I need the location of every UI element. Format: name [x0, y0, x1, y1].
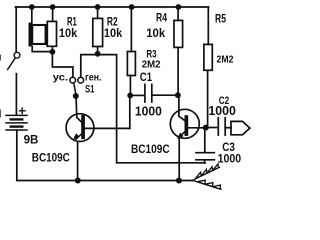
wire Q2 base lead	[188, 127, 206, 129]
wire battery to bottom rail	[16, 130, 18, 181]
wire node to Q2 collector	[178, 95, 180, 112]
wire rail to microphone	[31, 7, 33, 24]
svg-text:ус.: ус.	[53, 72, 68, 84]
svg-text:BC109C: BC109C	[131, 142, 170, 156]
svg-text:1000: 1000	[208, 104, 236, 118]
node R2 top on rail	[95, 4, 101, 10]
wire C2 to probe tip	[225, 127, 231, 129]
node R4/C1/Q2 collector junction	[175, 92, 181, 98]
wire Q2 emitter to rail	[178, 138, 180, 181]
switch SA1 arm	[8, 58, 16, 70]
svg-text:10k: 10k	[146, 26, 165, 40]
wire C3 bottom to crossing wire	[204, 160, 206, 163]
svg-text:C1: C1	[140, 70, 153, 84]
node S1 pole	[73, 93, 79, 99]
node R1/mic junction	[50, 49, 56, 55]
wire node to C2	[206, 127, 217, 129]
capacitor C1 left plate	[144, 84, 146, 102]
svg-text:10k: 10k	[104, 26, 123, 40]
wire rail to R1	[52, 7, 54, 21]
wire bottom rail	[17, 180, 193, 182]
transistor Q1 emitter arrow	[76, 133, 83, 140]
wire R4 bottom to C1 node	[177, 47, 179, 95]
battery GB1 plus sign	[20, 108, 26, 114]
wire top supply rail	[16, 6, 209, 8]
wire R2 junction to S1 gen contact	[81, 55, 98, 78]
crocodile clip XP2 lower teeth	[197, 180, 220, 189]
probe tip XP1	[231, 121, 250, 134]
wire R5 drop from rail corner	[207, 7, 209, 44]
resistor R4 body	[174, 20, 183, 47]
node R3/C1/base junction	[127, 93, 133, 99]
node R5/C2/C3/base junction	[203, 125, 209, 131]
svg-text:R4: R4	[156, 13, 167, 25]
transistor Q2 emitter arrow	[180, 130, 187, 137]
capacitor C3 bottom plate	[196, 159, 214, 161]
wire microphone bottom	[32, 47, 52, 52]
capacitor C2 right plate	[224, 118, 226, 135]
switch SA1 contact circle	[14, 52, 20, 58]
svg-text:10k: 10k	[59, 26, 78, 40]
wire switch feed from rail	[15, 7, 17, 52]
capacitor C2 left plate	[217, 118, 219, 135]
node Q1 emitter on rail	[75, 178, 81, 184]
transistor Q1 circle	[66, 114, 94, 142]
node R4 top on rail	[176, 4, 182, 10]
transistor Q2 circle	[170, 109, 199, 138]
capacitor C1 right plate	[151, 84, 153, 102]
wire Q1 base lead	[85, 127, 130, 129]
transistor Q2 collector bend	[179, 112, 185, 121]
svg-text:2M2: 2M2	[217, 54, 234, 66]
scan artifact left edge upper	[0, 55, 2, 60]
svg-text:R5: R5	[215, 13, 226, 25]
wire R5 bottom to C2 node	[207, 70, 209, 127]
microphone BM1 box	[32, 25, 45, 44]
wire R2 bottom	[97, 47, 99, 54]
battery GB1 plates	[6, 114, 27, 116]
svg-text:9В: 9В	[24, 134, 39, 146]
svg-text:1000: 1000	[135, 104, 162, 119]
crocodile clip XP2 lower jaw	[192, 180, 221, 189]
wire switch to battery	[15, 74, 17, 115]
wire rail to R2	[97, 7, 99, 18]
wire R1 junction to S1 us contact	[52, 52, 73, 78]
switch S1 arm	[74, 83, 76, 93]
resistor R5 body	[204, 44, 212, 70]
wire Q1 emitter to rail	[77, 142, 79, 181]
crocodile clip XP2 upper teeth	[195, 164, 218, 179]
wire node down to C3	[204, 128, 206, 152]
switch S1 contact gen	[78, 77, 84, 83]
node R1 top on rail	[50, 4, 56, 10]
capacitor C3 top plate	[196, 152, 214, 154]
svg-text:BC109C: BC109C	[32, 150, 70, 164]
wire R2 junction down and across to Q2 emitter	[98, 55, 206, 163]
wire R1 bottom	[51, 46, 53, 51]
resistor R2 body	[93, 18, 103, 46]
wire rail to R3	[130, 7, 132, 52]
svg-text:2M2: 2M2	[142, 58, 161, 70]
node mic feed on rail	[29, 4, 35, 10]
wire C1 right to R4 node	[153, 94, 178, 96]
transistor Q1 collector wire from S1 pole	[76, 96, 83, 123]
svg-text:1000: 1000	[218, 152, 242, 166]
resistor R1 body	[47, 21, 56, 46]
scan artifact left edge lower	[0, 110, 2, 117]
svg-text:S1: S1	[85, 83, 94, 95]
switch S1 contact us	[70, 77, 76, 83]
microphone BM1 bar	[29, 23, 32, 47]
transistor Q1 base bar	[81, 115, 85, 139]
resistor R3 body	[127, 52, 135, 76]
wire C1 left	[130, 94, 144, 96]
crocodile clip XP2 upper jaw	[192, 167, 219, 180]
wire rail to R4	[177, 7, 179, 20]
node R2 bottom junction	[95, 51, 101, 57]
transistor Q2 base bar	[185, 115, 189, 136]
node Q2 emitter on rail	[176, 178, 182, 184]
wire Q1 base riser to C1 node	[129, 95, 131, 128]
wire R3 bottom to node	[129, 76, 131, 96]
svg-text:ген.: ген.	[85, 71, 102, 83]
node R3 top on rail	[129, 4, 135, 10]
